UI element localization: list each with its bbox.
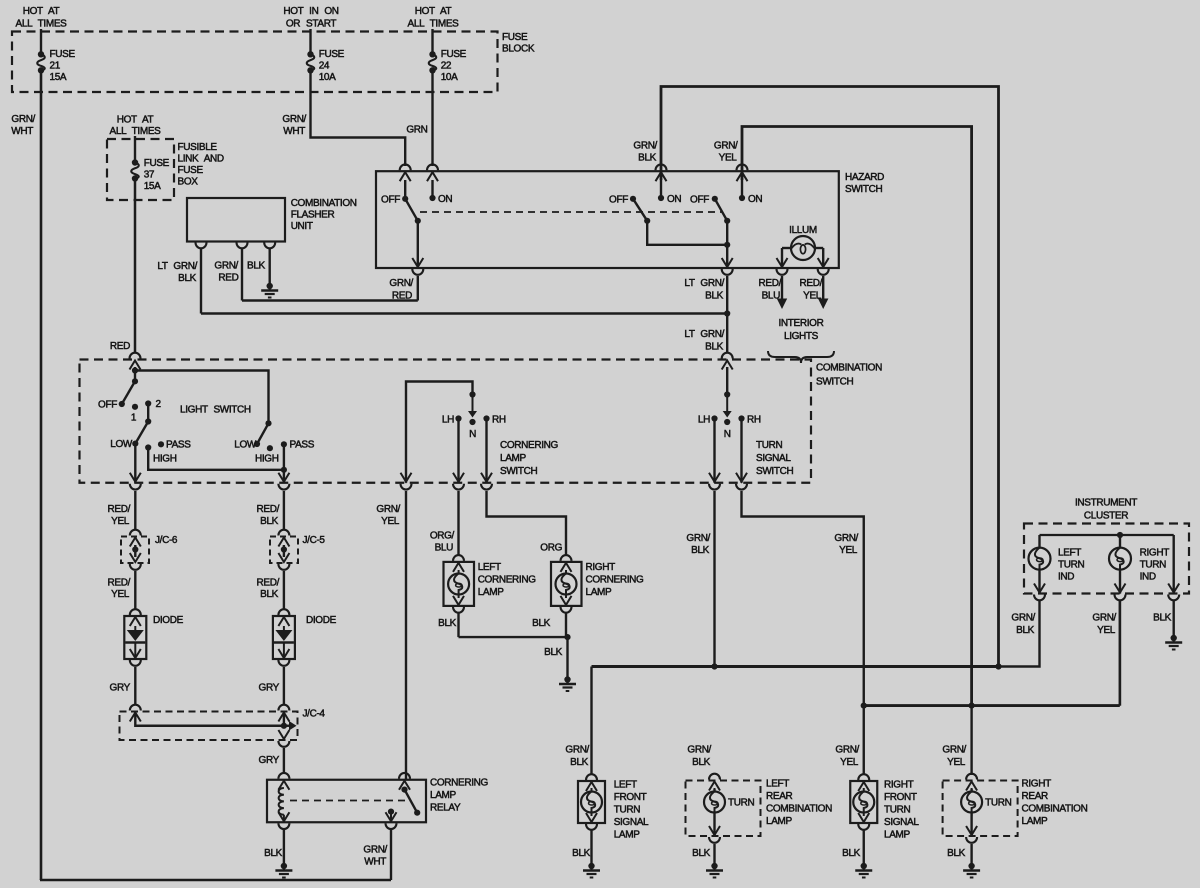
svg-text:N: N [469,429,476,440]
svg-text:GRN/: GRN/ [214,261,238,272]
svg-text:INTERIOR: INTERIOR [779,318,824,329]
svg-text:RED/: RED/ [108,578,131,589]
svg-text:ILLUM: ILLUM [789,225,817,236]
svg-text:LAMP: LAMP [884,830,911,841]
svg-text:HOT AT: HOT AT [117,115,154,126]
svg-text:HIGH: HIGH [255,454,279,465]
svg-text:TURN: TURN [1140,560,1167,571]
svg-text:LIGHT SWITCH: LIGHT SWITCH [180,405,251,416]
svg-text:DIODE: DIODE [153,615,184,626]
svg-text:BLK: BLK [692,848,711,859]
svg-text:COMBINATION: COMBINATION [816,363,882,374]
svg-text:YEL: YEL [947,757,966,768]
svg-text:15A: 15A [50,72,67,83]
svg-text:OR START: OR START [286,19,337,30]
svg-text:LINK AND: LINK AND [178,154,224,165]
svg-text:LAMP: LAMP [430,790,457,801]
svg-text:LAMP: LAMP [1022,816,1049,827]
svg-text:22: 22 [441,61,452,72]
svg-text:BLK: BLK [705,291,724,302]
svg-text:LH: LH [698,415,710,426]
svg-text:BLK: BLK [705,342,724,353]
svg-text:BLK: BLK [572,848,591,859]
svg-text:RIGHT: RIGHT [586,562,616,573]
svg-text:GRN/: GRN/ [389,278,413,289]
svg-text:LAMP: LAMP [500,453,527,464]
svg-text:LAMP: LAMP [614,830,641,841]
svg-text:FUSIBLE: FUSIBLE [178,142,218,153]
svg-text:ORG/: ORG/ [430,531,455,542]
svg-text:BLK: BLK [692,757,711,768]
svg-text:TURN: TURN [985,798,1012,809]
svg-text:OFF: OFF [690,195,709,206]
svg-text:ON: ON [667,194,681,205]
svg-text:CORNERING: CORNERING [500,440,559,451]
svg-text:FUSE: FUSE [178,165,204,176]
svg-text:SWITCH: SWITCH [500,466,537,477]
svg-text:RIGHT: RIGHT [884,780,914,791]
svg-text:BLK: BLK [638,153,657,164]
svg-text:BLK: BLK [260,589,279,600]
svg-text:TURN: TURN [756,440,783,451]
svg-text:LT GRN/: LT GRN/ [157,261,197,272]
svg-text:DIODE: DIODE [306,615,337,626]
svg-text:GRN/: GRN/ [714,141,738,152]
svg-text:LOW: LOW [110,439,133,450]
svg-text:J/C-6: J/C-6 [155,535,178,546]
svg-text:LH: LH [442,415,454,426]
svg-text:RIGHT: RIGHT [1140,548,1170,559]
svg-text:SWITCH: SWITCH [756,466,793,477]
svg-text:FUSE: FUSE [502,32,528,43]
svg-text:RED: RED [110,341,130,352]
svg-text:CORNERING: CORNERING [478,575,537,586]
svg-text:LIGHTS: LIGHTS [784,331,819,342]
svg-text:FLASHER: FLASHER [291,210,335,221]
svg-text:CORNERING: CORNERING [430,778,489,789]
svg-text:ON: ON [438,194,452,205]
svg-text:HIGH: HIGH [153,454,177,465]
svg-text:OFF: OFF [609,195,628,206]
svg-text:RED/: RED/ [759,278,782,289]
svg-text:GRN: GRN [406,125,427,136]
svg-text:TURN: TURN [1058,560,1085,571]
svg-text:LAMP: LAMP [586,587,613,598]
svg-text:GRN/: GRN/ [363,845,387,856]
svg-text:RED: RED [392,291,412,302]
svg-text:GRN/: GRN/ [633,141,657,152]
svg-text:BLK: BLK [264,848,283,859]
svg-text:GRY: GRY [110,683,131,694]
svg-text:TURN: TURN [884,805,911,816]
svg-text:ALL TIMES: ALL TIMES [408,19,460,30]
svg-text:REAR: REAR [766,791,793,802]
svg-text:OFF: OFF [98,400,117,411]
svg-text:OFF: OFF [381,195,400,206]
svg-text:YEL: YEL [839,545,858,556]
svg-text:37: 37 [144,170,155,181]
svg-text:YEL: YEL [381,516,400,527]
svg-text:BLK: BLK [570,757,589,768]
svg-text:YEL: YEL [719,153,738,164]
svg-text:COMBINATION: COMBINATION [1022,804,1088,815]
svg-text:21: 21 [50,61,61,72]
svg-text:RIGHT: RIGHT [1022,779,1052,790]
svg-text:CORNERING: CORNERING [586,575,645,586]
svg-text:SIGNAL: SIGNAL [884,817,919,828]
svg-text:HOT AT: HOT AT [23,6,60,17]
svg-text:2: 2 [156,399,162,410]
svg-text:GRN/: GRN/ [282,114,306,125]
svg-text:ALL TIMES: ALL TIMES [16,19,68,30]
svg-text:FRONT: FRONT [884,792,917,803]
svg-text:TURN: TURN [614,805,641,816]
svg-text:24: 24 [319,61,330,72]
svg-text:10A: 10A [441,72,458,83]
svg-text:CLUSTER: CLUSTER [1084,511,1128,522]
svg-text:RED/: RED/ [257,504,280,515]
svg-text:GRN/: GRN/ [835,745,859,756]
svg-text:RED/: RED/ [108,504,131,515]
svg-text:YEL: YEL [111,589,130,600]
svg-text:HOT IN ON: HOT IN ON [283,6,338,17]
svg-text:BLU: BLU [762,291,781,302]
svg-text:N: N [724,429,731,440]
svg-text:FRONT: FRONT [614,792,647,803]
svg-text:WHT: WHT [11,126,33,137]
svg-text:BLK: BLK [438,618,457,629]
svg-text:RH: RH [747,415,761,426]
svg-text:RED/: RED/ [800,278,823,289]
svg-text:BLK: BLK [247,261,266,272]
svg-text:LOW: LOW [234,440,257,451]
svg-text:BLK: BLK [532,618,551,629]
svg-text:ON: ON [748,194,762,205]
svg-text:RELAY: RELAY [430,803,461,814]
svg-text:SIGNAL: SIGNAL [756,453,791,464]
svg-text:GRN/: GRN/ [376,504,400,515]
svg-text:WHT: WHT [283,126,305,137]
svg-text:SWITCH: SWITCH [845,184,882,195]
svg-text:HAZARD: HAZARD [845,172,884,183]
svg-text:LAMP: LAMP [478,587,505,598]
svg-text:BLK: BLK [260,516,279,527]
svg-text:LT GRN/: LT GRN/ [684,278,724,289]
svg-text:YEL: YEL [1097,625,1116,636]
svg-text:BLOCK: BLOCK [502,44,535,55]
svg-text:BLK: BLK [947,848,966,859]
svg-text:GRN/: GRN/ [565,745,589,756]
svg-text:RED: RED [218,273,238,284]
svg-text:SIGNAL: SIGNAL [614,817,649,828]
svg-text:YEL: YEL [803,291,822,302]
svg-text:SWITCH: SWITCH [816,377,853,388]
svg-text:LEFT: LEFT [478,562,501,573]
svg-text:BLU: BLU [435,543,454,554]
svg-text:FUSE: FUSE [50,49,76,60]
svg-text:BOX: BOX [178,177,199,188]
svg-text:J/C-4: J/C-4 [303,709,326,720]
svg-text:FUSE: FUSE [319,49,345,60]
svg-text:YEL: YEL [111,516,130,527]
svg-text:BLK: BLK [1153,613,1172,624]
svg-text:GRY: GRY [259,683,280,694]
svg-text:LT GRN/: LT GRN/ [684,329,724,340]
svg-text:ALL TIMES: ALL TIMES [110,126,162,137]
svg-text:1: 1 [131,413,137,424]
svg-text:GRN/: GRN/ [834,533,858,544]
svg-text:GRN/: GRN/ [1011,613,1035,624]
svg-text:IND: IND [1058,572,1074,583]
svg-text:J/C-5: J/C-5 [303,535,326,546]
svg-text:TURN: TURN [728,798,755,809]
svg-text:COMBINATION: COMBINATION [766,804,832,815]
svg-text:RED/: RED/ [257,578,280,589]
svg-text:10A: 10A [319,72,336,83]
svg-text:REAR: REAR [1022,791,1049,802]
svg-text:LEFT: LEFT [1058,548,1081,559]
svg-text:PASS: PASS [290,440,315,451]
svg-text:LEFT: LEFT [614,780,637,791]
svg-text:INSTRUMENT: INSTRUMENT [1075,498,1137,509]
svg-text:HOT AT: HOT AT [415,6,452,17]
svg-text:UNIT: UNIT [291,221,313,232]
svg-text:BLK: BLK [1016,625,1035,636]
svg-text:FUSE: FUSE [441,49,467,60]
svg-text:GRN/: GRN/ [942,745,966,756]
svg-text:GRN/: GRN/ [687,745,711,756]
svg-text:BLK: BLK [178,273,197,284]
svg-text:LEFT: LEFT [766,779,789,790]
svg-text:IND: IND [1140,572,1156,583]
svg-text:COMBINATION: COMBINATION [291,198,357,209]
svg-text:BLK: BLK [842,848,861,859]
svg-text:GRN/: GRN/ [1092,613,1116,624]
svg-text:15A: 15A [144,181,161,192]
svg-text:BLK: BLK [544,647,563,658]
svg-text:GRN/: GRN/ [11,114,35,125]
svg-text:GRN/: GRN/ [686,533,710,544]
svg-text:YEL: YEL [840,757,859,768]
svg-text:PASS: PASS [166,440,191,451]
svg-text:BLK: BLK [691,545,710,556]
svg-text:RH: RH [492,415,506,426]
svg-text:ORG: ORG [540,543,562,554]
svg-text:GRY: GRY [259,755,280,766]
svg-text:WHT: WHT [364,857,386,868]
svg-text:FUSE: FUSE [144,158,170,169]
svg-text:LAMP: LAMP [766,816,793,827]
